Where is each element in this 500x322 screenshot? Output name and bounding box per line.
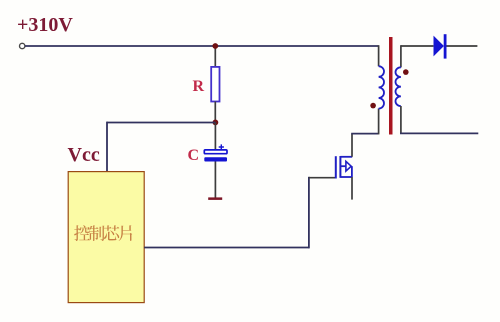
wire drain lead	[351, 134, 353, 157]
capacitor C plus sign	[219, 144, 224, 149]
wire capacitor bottom lead	[214, 162, 216, 199]
wire capacitor top lead	[214, 122, 216, 150]
wire secondary bottom lead	[400, 106, 402, 133]
ground	[208, 197, 222, 200]
node junction mid	[213, 120, 219, 126]
wire vcc horizontal	[107, 122, 215, 124]
wire chip output horizontal	[144, 247, 309, 249]
wire resistor bottom lead	[214, 102, 216, 123]
wire primary bottom horizontal	[351, 133, 378, 135]
input terminal	[20, 43, 25, 48]
svg-text:+310V: +310V	[17, 14, 73, 36]
svg-text:C: C	[188, 147, 200, 164]
capacitor C bottom plate	[204, 157, 227, 161]
wire top rail	[25, 45, 379, 47]
resistor R	[211, 67, 219, 102]
wire source lead	[351, 177, 353, 200]
transformer T1 secondary phase dot	[403, 69, 409, 75]
diode D1	[434, 36, 444, 57]
chip U1 box	[68, 172, 144, 303]
capacitor C top plate	[204, 150, 227, 154]
wire primary top lead	[378, 45, 380, 66]
chip U1 label 控制芯片	[74, 225, 132, 241]
wire diode anode	[401, 45, 434, 47]
svg-text:R: R	[193, 78, 205, 95]
transformer T1 secondary winding	[395, 67, 400, 106]
wire resistor top lead	[214, 46, 216, 68]
transistor Q1 mosfet	[336, 156, 352, 179]
transformer T1 core	[389, 37, 393, 135]
transformer T1 primary phase dot	[370, 103, 376, 109]
wire gate lead	[309, 177, 336, 179]
wire secondary bottom horizontal	[400, 132, 478, 134]
wire secondary top lead	[400, 45, 402, 67]
wire vcc vertical	[106, 122, 108, 172]
transformer T1 primary winding	[379, 66, 384, 108]
wire diode cathode	[447, 45, 478, 47]
wire chip output vertical	[308, 177, 310, 249]
wire primary bottom lead	[378, 109, 380, 135]
svg-text:Vcc: Vcc	[68, 144, 100, 166]
node junction top	[212, 43, 218, 49]
